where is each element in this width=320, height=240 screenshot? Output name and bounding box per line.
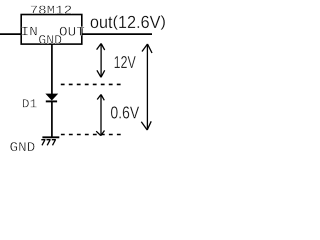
label D1 — [23, 99, 37, 107]
label GND ground net — [10, 142, 34, 151]
node label out(12.6V) — [91, 15, 165, 29]
wire: GND pin down — [51, 44, 53, 95]
label 0.6V — [111, 106, 139, 118]
wire: diode to ground — [51, 101, 53, 137]
dimension arrow 12.6V total double headed tall — [141, 44, 152, 130]
dashed level line: ground 0V level — [61, 134, 121, 136]
label 78M12 — [31, 6, 71, 14]
diode D1 triangle anode — [46, 94, 57, 100]
dashed level line: diode anode 12V level — [61, 83, 121, 85]
pin label IN — [22, 27, 37, 36]
diode D1 cathode bar — [46, 100, 57, 102]
pin label OUT — [60, 27, 85, 36]
ground symbol hatches 777 — [41, 140, 56, 146]
dimension arrow 0.6V double headed — [96, 95, 104, 136]
regulator U1 78M12 box — [21, 15, 82, 45]
pin label GND — [39, 35, 61, 44]
dimension arrow 12V double headed — [97, 44, 105, 78]
wire: output — [82, 33, 152, 35]
ground symbol bar — [42, 136, 59, 138]
wire: input (left) — [0, 33, 21, 35]
label 12V — [115, 56, 136, 68]
